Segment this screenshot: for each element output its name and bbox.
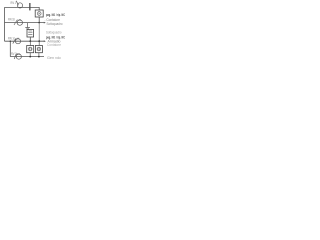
wire: row 3 horizontal bbox=[5, 40, 45, 42]
breaker circle Q1 bbox=[17, 3, 22, 8]
wire: vertical link x39 row2-row3 bbox=[38, 23, 40, 42]
meter box U2 bbox=[27, 30, 34, 38]
arrow row 3 bbox=[44, 40, 46, 42]
wire: row 1 horizontal feeder bbox=[5, 7, 40, 10]
ground symbol bbox=[27, 23, 29, 28]
svg-text:RN 1c: RN 1c bbox=[8, 37, 15, 41]
svg-text:pag. NO / rip. NC: pag. NO / rip. NC bbox=[46, 13, 65, 17]
meter box B bbox=[38, 41, 40, 45]
wire: U1 bottom stub bbox=[38, 17, 40, 23]
breaker circle Q3 bbox=[15, 39, 20, 44]
node: junction row4/box B bbox=[38, 56, 40, 58]
svg-text:RV 3a: RV 3a bbox=[11, 52, 18, 56]
node: junction row3/sub bus bbox=[10, 40, 12, 42]
meter box U1 bbox=[35, 10, 43, 17]
svg-text:Sottoquadro: Sottoquadro bbox=[46, 30, 62, 34]
wire: left vertical bus bbox=[4, 7, 6, 41]
svg-text:Contatore: Contatore bbox=[47, 43, 61, 47]
switch blade row 3 bbox=[13, 38, 16, 43]
wire: box B bottom stub bbox=[38, 53, 40, 57]
wire: box A bottom stub bbox=[29, 53, 31, 57]
svg-text:RN 1b: RN 1b bbox=[8, 17, 15, 21]
breaker circle Q2 bbox=[17, 20, 22, 25]
node: junction row3/x39 bbox=[38, 40, 40, 42]
svg-text:Sottoquadro: Sottoquadro bbox=[47, 22, 63, 26]
node: junction row3/U2 bbox=[29, 40, 31, 42]
node: junction row2/U1 bbox=[38, 22, 40, 24]
switch blade row 2 bbox=[14, 20, 17, 25]
node: junction row4/box A bbox=[29, 56, 31, 58]
symbol in box A bbox=[28, 47, 32, 51]
symbol in U1 bbox=[37, 12, 41, 16]
switch blade row 4 bbox=[14, 54, 16, 59]
svg-text:Gen vdc: Gen vdc bbox=[47, 56, 61, 60]
symbol in U2 bbox=[28, 32, 32, 34]
wire: row 4 horizontal bbox=[10, 56, 44, 58]
svg-text:RN 1: RN 1 bbox=[11, 1, 17, 5]
switch blade row 1 bbox=[16, 1, 18, 5]
breaker circle Q4 bbox=[16, 54, 21, 59]
wire: row 2 horizontal bbox=[5, 22, 45, 24]
terminal bar row 1 bbox=[29, 3, 30, 10]
symbol in box B bbox=[37, 47, 41, 51]
arrow row 2 bbox=[44, 22, 46, 24]
wire: U2 bottom stub bbox=[29, 37, 31, 41]
meter box A bbox=[29, 41, 31, 45]
wire: sub bus x10 bbox=[9, 41, 11, 56]
